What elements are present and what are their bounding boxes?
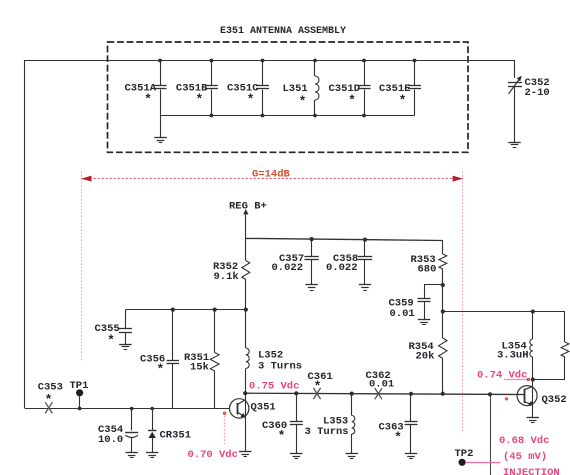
voltage note 0.70 Vdc at Q351 base [188, 449, 238, 461]
node REG B+ label [229, 201, 267, 213]
measure leader to Q352 collector [504, 379, 527, 381]
svg-text:*: * [45, 392, 53, 407]
svg-text:*: * [314, 379, 322, 394]
voltage note 0.75 Vdc at Q351 collector [249, 381, 299, 393]
dimension line for gain measurement [82, 178, 463, 180]
svg-text:*: * [247, 92, 255, 107]
injection label [503, 467, 560, 475]
wire interstage rail Q351 collector to Q352 base [245, 393, 525, 394]
junction dot C363 top [409, 392, 413, 396]
junction dot C360 top [294, 391, 298, 395]
svg-text:*: * [107, 333, 115, 348]
ground below L353 [346, 454, 358, 459]
svg-text:CR351: CR351 [160, 430, 192, 442]
svg-text:Q351: Q351 [251, 402, 276, 414]
junction dot Q351 collector node [243, 391, 247, 395]
diode CR351 [148, 409, 191, 453]
transistor Q352 [517, 386, 567, 406]
antenna assembly dashed enclosure box [108, 42, 469, 152]
test point TP2 [455, 448, 474, 466]
measure leader below Q351 base [224, 416, 226, 447]
svg-text:*: * [299, 94, 307, 109]
wire tap to C359 [424, 283, 445, 287]
leader from TP2 to injection wire [466, 462, 501, 464]
injection level note 45 mV [503, 451, 547, 463]
svg-text:0.022: 0.022 [326, 262, 358, 274]
svg-text:20k: 20k [416, 351, 435, 363]
wire first stage bias rail [125, 309, 245, 311]
svg-text:15k: 15k [190, 362, 209, 374]
ground below Q351 emitter [239, 452, 251, 457]
capacitor C362 0.01 [366, 370, 395, 399]
svg-text:*: * [156, 362, 164, 377]
wire bias bus [246, 238, 443, 240]
capacitor C358 0.022 [326, 240, 372, 285]
svg-text:0.01: 0.01 [369, 379, 394, 391]
resistor R352 9.1k [213, 238, 250, 309]
junction dot C356 top [171, 308, 175, 312]
resistor R354 20k [409, 312, 448, 394]
svg-text:0.022: 0.022 [272, 262, 304, 274]
gain annotation G=14dB [252, 169, 291, 181]
capacitor C353 select [38, 382, 63, 414]
ground below C352 [508, 143, 520, 148]
wire Q352 collector to load [533, 379, 565, 381]
svg-text:*: * [394, 430, 402, 445]
svg-text:0.01: 0.01 [390, 308, 415, 320]
ground below C363 [405, 454, 417, 459]
wire top bus from antenna input across assembly to C352 [25, 60, 515, 62]
junction dot Q352 collector node [531, 377, 535, 381]
capacitor C351A [125, 60, 167, 116]
wire bottom bus inside assembly [160, 115, 415, 117]
test point TP1 [70, 380, 89, 410]
red probe dot at Q352 collector [527, 378, 531, 382]
svg-text:10.0: 10.0 [98, 434, 123, 446]
svg-text:3 Turns: 3 Turns [305, 426, 349, 438]
junction dot C354 top [130, 407, 134, 411]
resistor R355 output load [561, 312, 569, 380]
measure line down to TP1 [81, 172, 83, 363]
dimension right arrowhead [453, 176, 463, 182]
capacitor C354 10.0 [98, 409, 138, 453]
ground below CR351 [146, 453, 158, 458]
svg-text:3 Turns: 3 Turns [258, 361, 302, 373]
ground below C359 [418, 320, 430, 325]
junction dots on bottom bus [210, 114, 366, 118]
capacitor C351B [176, 60, 218, 116]
junction dot L354 top [531, 309, 535, 313]
inductor L353 3 Turns [305, 394, 355, 454]
capacitor C351E [379, 60, 421, 116]
label E351 antenna assembly title [220, 26, 346, 37]
junction dot R354 top [441, 309, 445, 313]
ground below Q352 emitter [527, 418, 539, 423]
red probe dot at Q351 base [223, 412, 227, 416]
variable capacitor C352 2-10 [508, 60, 550, 142]
svg-text:TP2: TP2 [455, 448, 474, 460]
junction dot bias rail right [244, 308, 248, 312]
svg-text:(45 mV): (45 mV) [503, 451, 547, 463]
ground below C354 [126, 453, 138, 458]
svg-text:3.3uH: 3.3uH [497, 350, 529, 362]
wire injection feed down from Q352 base node [490, 394, 492, 475]
svg-text:0.75 Vdc: 0.75 Vdc [249, 381, 299, 393]
capacitor C359 0.01 [389, 285, 431, 320]
ground below C358 [359, 285, 371, 291]
svg-text:INJECTION: INJECTION [503, 467, 560, 475]
svg-text:0.70 Vdc: 0.70 Vdc [188, 449, 238, 461]
wire Q351 collector-emitter column [245, 393, 247, 451]
inductor L352 3 Turns [246, 310, 303, 394]
capacitor C357 0.022 [272, 239, 319, 285]
svg-text:Q352: Q352 [542, 394, 567, 406]
junction dot C358 top [363, 238, 367, 242]
junction dot C357 top [310, 237, 314, 241]
dimension left arrowhead [81, 176, 91, 182]
transistor Q351 [230, 399, 276, 418]
wire second stage rail [443, 311, 565, 313]
junction dots on top bus [158, 59, 416, 63]
svg-text:*: * [348, 93, 356, 108]
capacitor C360 [262, 393, 303, 453]
junction dot Q352 base node [488, 392, 492, 396]
REG B+ arrow [243, 209, 248, 238]
ground below C357 [305, 285, 317, 291]
ground of antenna assembly bottom bus [154, 116, 166, 143]
junction dot R354 bottom [441, 392, 445, 396]
resistor R353 680 [411, 241, 447, 312]
capacitor C351D [329, 60, 371, 116]
voltage note 0.74 Vdc at Q352 collector [477, 370, 527, 382]
ground below C355 [119, 345, 131, 350]
inductor L351 [283, 60, 320, 116]
svg-text:REG B+: REG B+ [229, 201, 267, 213]
svg-text:E351 ANTENNA ASSEMBLY: E351 ANTENNA ASSEMBLY [220, 26, 346, 37]
svg-text:*: * [144, 92, 152, 107]
svg-text:2-10: 2-10 [525, 87, 550, 99]
svg-text:9.1k: 9.1k [214, 271, 239, 283]
ground below C360 [290, 454, 302, 459]
capacitor C351C [227, 60, 269, 116]
wire left vertical from top bus down to TP1 node [24, 60, 26, 408]
svg-text:*: * [399, 93, 407, 108]
junction dot CR351 top [150, 407, 154, 411]
voltage note 0.68 Vdc at Q352 base [499, 435, 549, 447]
svg-text:0.68 Vdc: 0.68 Vdc [499, 435, 549, 447]
measure line down to TP2 [462, 172, 464, 434]
capacitor C356 [140, 310, 179, 409]
svg-text:680: 680 [418, 264, 437, 276]
wire input rail to Q351 base [25, 408, 230, 410]
svg-text:*: * [278, 429, 286, 444]
inductor L354 3.3uH [497, 312, 533, 380]
capacitor C363 [379, 394, 418, 454]
red probe dot at Q352 base [505, 397, 508, 400]
resistor R351 15k [184, 310, 219, 409]
svg-text:*: * [195, 92, 203, 107]
junction dot L353 top [350, 392, 354, 396]
wire Q352 collector-emitter column [532, 380, 534, 418]
capacitor C355 [95, 310, 132, 348]
junction dot R351 top [213, 308, 217, 312]
capacitor C361 select [308, 371, 333, 399]
